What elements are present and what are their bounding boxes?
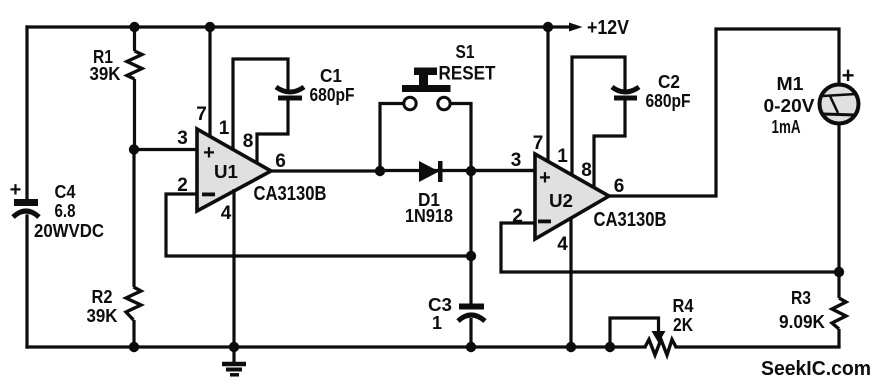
meter M1 <box>820 63 859 124</box>
svg-text:+: + <box>10 179 22 201</box>
svg-text:39K: 39K <box>87 306 118 326</box>
node C3 top junction <box>466 251 476 261</box>
svg-text:+: + <box>539 167 551 189</box>
U2 pin 4 <box>557 217 571 347</box>
node U1 output junction <box>375 166 385 176</box>
U2 pin 3 <box>471 150 535 171</box>
U1 pin 6 output wire <box>271 151 380 172</box>
node R1/R2 divider junction <box>129 144 139 154</box>
potentiometer R4 <box>610 318 659 347</box>
U2 pin 1 <box>557 57 625 175</box>
node top rail junctions <box>129 22 139 32</box>
svg-text:20WVDC: 20WVDC <box>34 221 104 241</box>
svg-text:6: 6 <box>275 151 286 172</box>
svg-text:1: 1 <box>219 118 230 139</box>
node feedback junction <box>834 267 844 277</box>
U1 pin 2 (wire loop to peak node) <box>166 175 471 256</box>
node bottom rail junctions <box>129 342 139 352</box>
op-amp U1 <box>197 129 271 211</box>
svg-text:U2: U2 <box>549 191 573 211</box>
svg-text:C3: C3 <box>428 295 452 315</box>
svg-text:6.8: 6.8 <box>55 201 76 221</box>
svg-text:C4: C4 <box>55 182 76 202</box>
wire peak node down <box>469 171 472 304</box>
svg-text:+12V: +12V <box>587 17 630 39</box>
svg-text:1N918: 1N918 <box>405 206 453 226</box>
svg-text:M1: M1 <box>777 74 804 94</box>
svg-text:6: 6 <box>614 176 625 197</box>
U1 pin 8 <box>243 99 288 162</box>
svg-text:4: 4 <box>557 234 568 255</box>
svg-text:CA3130B: CA3130B <box>594 209 667 231</box>
capacitor C3 <box>458 307 485 348</box>
wire top rail +12V <box>27 25 570 28</box>
svg-text:8: 8 <box>581 160 592 181</box>
svg-text:+: + <box>203 142 215 164</box>
svg-text:CA3130B: CA3130B <box>254 183 327 205</box>
wire S1 left leg <box>380 104 404 172</box>
svg-text:680pF: 680pF <box>310 85 355 105</box>
svg-text:RESET: RESET <box>439 64 496 85</box>
svg-text:0-20V: 0-20V <box>764 96 815 116</box>
svg-text:2: 2 <box>177 175 188 196</box>
svg-text:SeekIC.com: SeekIC.com <box>761 358 871 380</box>
op-amp U2 <box>535 154 609 239</box>
svg-text:9.09K: 9.09K <box>779 312 825 332</box>
U1 pin 7 <box>196 27 210 137</box>
svg-text:39K: 39K <box>90 64 121 84</box>
svg-text:R3: R3 <box>791 288 811 308</box>
wire bottom rail <box>27 345 645 348</box>
U2 pin 8 <box>581 100 625 188</box>
capacitor C1 <box>276 87 304 98</box>
svg-text:R2: R2 <box>92 287 113 307</box>
wire S1 right leg <box>450 104 471 172</box>
node +12V arrow <box>569 17 630 39</box>
ground <box>222 347 246 375</box>
node D1 cathode junction <box>466 166 476 176</box>
U1 pin 4 <box>221 189 234 347</box>
svg-text:7: 7 <box>196 104 207 125</box>
svg-text:+: + <box>842 63 855 88</box>
svg-text:1mA: 1mA <box>772 117 801 137</box>
resistor R3 <box>832 298 846 347</box>
svg-text:8: 8 <box>243 131 254 152</box>
svg-text:4: 4 <box>221 203 232 224</box>
wire U1 out to U2 in <box>380 169 535 172</box>
svg-text:1: 1 <box>557 146 568 167</box>
resistor R1 <box>127 51 142 149</box>
svg-text:2K: 2K <box>673 315 693 335</box>
svg-text:C2: C2 <box>658 72 680 92</box>
U1 pin 3 <box>134 128 197 150</box>
svg-text:7: 7 <box>533 133 544 154</box>
svg-text:3: 3 <box>177 128 188 149</box>
U2 pin 7 <box>533 27 548 162</box>
diode D1 <box>419 161 443 182</box>
svg-text:S1: S1 <box>456 42 475 62</box>
svg-text:680pF: 680pF <box>646 91 691 111</box>
U1 pin 1 <box>219 59 288 149</box>
svg-text:C1: C1 <box>320 66 342 86</box>
svg-text:1: 1 <box>432 313 442 333</box>
U2 pin 6 output wire to meter <box>609 29 839 197</box>
wire meter to feedback node <box>837 123 840 298</box>
capacitor C2 <box>612 87 639 98</box>
capacitor C4 <box>10 179 39 217</box>
U2 pin 2 (feedback loop) <box>501 206 839 272</box>
resistor R2 <box>126 27 141 347</box>
svg-text:R4: R4 <box>673 296 694 316</box>
svg-text:2: 2 <box>512 206 523 227</box>
svg-text:3: 3 <box>511 150 522 171</box>
svg-text:U1: U1 <box>214 162 238 182</box>
wire left rail <box>25 27 28 199</box>
switch S1 RESET <box>402 42 496 110</box>
